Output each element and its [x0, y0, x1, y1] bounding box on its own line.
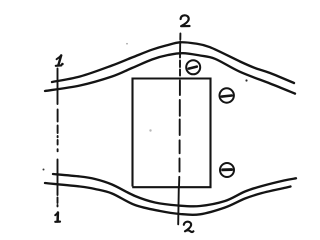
bottom wall outer curve	[45, 183, 291, 215]
faint speck inside rectangle	[149, 129, 151, 131]
label 2 (bottom)	[184, 222, 194, 232]
top wall inner curve	[45, 53, 295, 93]
axis line 2 (dash-dot)	[178, 34, 180, 225]
minus terminal C (right lower)	[220, 163, 234, 177]
label 1 (top)	[56, 55, 63, 65]
axis line 1 (dash-dot)	[57, 69, 59, 207]
minus terminal A (top, inside channel)	[186, 60, 200, 74]
bottom wall inner curve	[53, 174, 296, 206]
body rectangle	[132, 79, 210, 188]
faint speck top curve area	[126, 43, 128, 45]
label 2 (top)	[181, 15, 190, 26]
top wall outer curve	[52, 42, 294, 83]
label 1 (bottom)	[55, 213, 60, 222]
minus terminal B (right upper)	[220, 88, 234, 102]
speck near top right curve	[245, 79, 247, 81]
speck near left bottom	[43, 169, 45, 171]
